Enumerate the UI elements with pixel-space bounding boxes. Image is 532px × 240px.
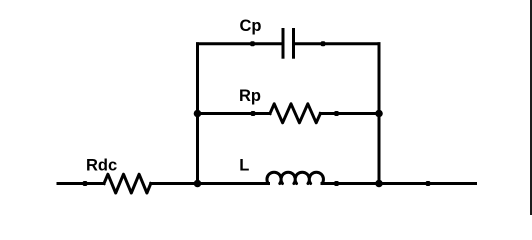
svg-text:L: L [239,156,249,174]
svg-text:Rp: Rp [239,87,261,105]
svg-text:Rdc: Rdc [86,156,117,174]
svg-text:Cp: Cp [240,17,262,35]
